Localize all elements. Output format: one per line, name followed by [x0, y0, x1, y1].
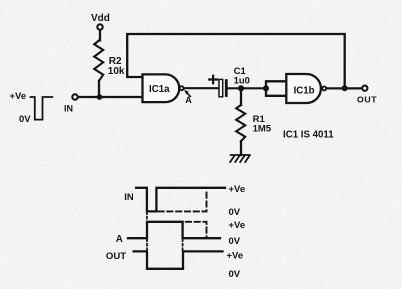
- svg-text:+Ve: +Ve: [229, 184, 246, 195]
- svg-text:0V: 0V: [19, 114, 31, 125]
- svg-text:0V: 0V: [229, 269, 241, 280]
- resistor R2: [94, 40, 103, 80]
- bubble IC1a output: [180, 86, 184, 90]
- terminal Vdd: [97, 24, 102, 29]
- svg-text:0V: 0V: [229, 236, 241, 247]
- resistor R1: [236, 105, 245, 141]
- wire node to R1: [240, 88, 242, 105]
- wire IC1b output to OUT: [327, 87, 362, 89]
- junction node C1/R1: [238, 85, 244, 91]
- svg-text:1u0: 1u0: [234, 76, 250, 87]
- svg-text:Vdd: Vdd: [91, 13, 110, 24]
- waveform A solid: [128, 222, 220, 238]
- svg-text:A: A: [116, 234, 123, 245]
- junction node IC1b inputs: [263, 85, 269, 91]
- wire IC1b input ties: [266, 81, 286, 96]
- terminal OUT: [362, 86, 367, 91]
- timing marker IN fall: [146, 213, 148, 222]
- node A arrow: [187, 93, 191, 97]
- svg-text:IN: IN: [124, 191, 134, 202]
- svg-text:+Ve: +Ve: [227, 250, 244, 261]
- svg-text:A: A: [185, 95, 192, 105]
- svg-text:1M5: 1M5: [253, 123, 272, 134]
- wire IC1a output to C1: [185, 87, 219, 89]
- svg-text:IC1b: IC1b: [294, 85, 315, 96]
- waveform A dashed high: [186, 222, 207, 237]
- svg-text:IN: IN: [64, 103, 73, 113]
- svg-text:+Ve: +Ve: [229, 220, 246, 231]
- waveform OUT solid: [134, 251, 223, 268]
- svg-text:OUT: OUT: [106, 251, 126, 262]
- waveform IN solid: [136, 188, 225, 212]
- bubble IC1b output: [322, 86, 326, 90]
- svg-text:+Ve: +Ve: [10, 91, 27, 102]
- svg-text:OUT: OUT: [357, 95, 377, 105]
- ground: [230, 155, 250, 162]
- capacitor C1 left plate: [219, 79, 223, 96]
- op-amp gate IC1a: [143, 74, 180, 102]
- terminal IN: [72, 94, 77, 99]
- capacitor C1 polarity +: [209, 76, 217, 84]
- wire IN to IC1a input: [78, 96, 142, 98]
- waveform IN dashed low: [159, 189, 207, 211]
- input pulse symbol: [31, 97, 53, 120]
- wire Vdd to R2: [99, 30, 101, 40]
- svg-text:0V: 0V: [229, 207, 241, 218]
- junction node OUT feedback: [342, 85, 348, 91]
- wire C1 to IC1b input node: [228, 87, 266, 89]
- wire R1 to ground: [240, 141, 242, 155]
- timing marker A fall: [147, 240, 183, 251]
- capacitor C1 right plate: [225, 79, 228, 97]
- op-amp gate IC1b: [286, 74, 321, 103]
- svg-text:IC1 IS 4011: IC1 IS 4011: [283, 129, 334, 140]
- junction node IN/R2: [97, 94, 103, 100]
- wire feedback OUT node to IC1a input: [127, 34, 345, 88]
- svg-text:10k: 10k: [108, 66, 125, 77]
- svg-text:IC1a: IC1a: [149, 84, 170, 95]
- wire R2 to node IN: [98, 81, 100, 97]
